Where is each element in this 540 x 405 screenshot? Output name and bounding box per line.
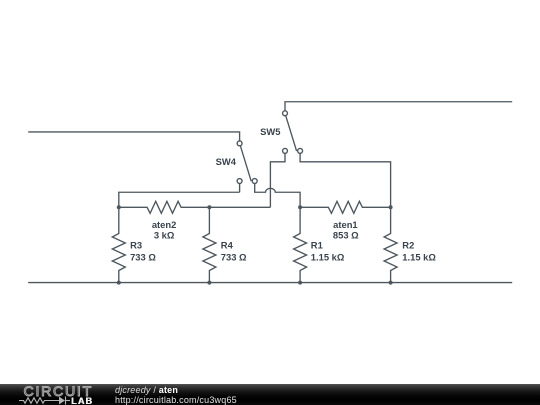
svg-text:R2: R2 bbox=[402, 240, 414, 251]
resistor R2 1.15 kOhm (vertical) bbox=[384, 207, 397, 282]
junction: R4 bottom node bbox=[207, 281, 211, 285]
svg-text:aten1: aten1 bbox=[333, 219, 358, 230]
svg-text:R3: R3 bbox=[130, 240, 142, 251]
junction: R1 bottom node bbox=[298, 281, 302, 285]
wire: SW5 right throw to R2 top bbox=[300, 153, 391, 207]
junction: R3 top node bbox=[117, 205, 121, 209]
CircuitLab logo wordmark LAB bbox=[71, 397, 93, 405]
svg-text:3 kΩ: 3 kΩ bbox=[154, 230, 175, 241]
svg-text:R1: R1 bbox=[311, 240, 323, 251]
wire: SW4 left throw to left attenuator net bbox=[119, 184, 240, 208]
svg-text:733 Ω: 733 Ω bbox=[221, 252, 247, 263]
wire: SW4 right throw to R1 node (hops over vertical wire) bbox=[255, 184, 300, 208]
switch SW5 bbox=[283, 111, 303, 153]
wire: bottom bus net bbox=[28, 282, 512, 284]
resistor aten2 3 kOhm (horizontal) bbox=[119, 201, 210, 213]
svg-text:853 Ω: 853 Ω bbox=[333, 230, 359, 241]
svg-text:1.15 kΩ: 1.15 kΩ bbox=[402, 252, 436, 263]
svg-text:SW5: SW5 bbox=[260, 126, 280, 137]
junction: R2 top node bbox=[389, 205, 393, 209]
svg-text:1.15 kΩ: 1.15 kΩ bbox=[311, 252, 345, 263]
wire: SW5 left throw down to R4 net bbox=[270, 153, 285, 207]
junction: R1 top node bbox=[298, 205, 302, 209]
resistor R3 733 Ohm (vertical) bbox=[112, 207, 125, 282]
footer bar bbox=[0, 384, 540, 405]
junction: R4 top node bbox=[207, 205, 211, 209]
junction: R2 bottom node bbox=[389, 281, 393, 285]
footer credit text bbox=[115, 385, 237, 405]
wire: R4 node to SW5 branch bbox=[209, 206, 270, 208]
wire: top-left bus net bbox=[28, 132, 239, 141]
resistor R1 1.15 kOhm (vertical) bbox=[294, 207, 307, 282]
switch SW4 bbox=[237, 141, 257, 184]
resistor aten1 853 Ohm (horizontal) bbox=[300, 201, 391, 213]
svg-text:aten2: aten2 bbox=[152, 219, 177, 230]
resistor R4 733 Ohm (vertical) bbox=[203, 207, 216, 282]
CircuitLab logo schematic glyph (resistor + diode) bbox=[18, 395, 74, 405]
junction: R3 bottom node bbox=[117, 281, 121, 285]
svg-text:R4: R4 bbox=[221, 240, 234, 251]
svg-text:733 Ω: 733 Ω bbox=[130, 252, 156, 263]
wire: top-right bus net bbox=[285, 102, 512, 111]
svg-text:SW4: SW4 bbox=[216, 156, 237, 167]
CircuitLab logo wordmark CIRCUIT bbox=[24, 387, 93, 398]
